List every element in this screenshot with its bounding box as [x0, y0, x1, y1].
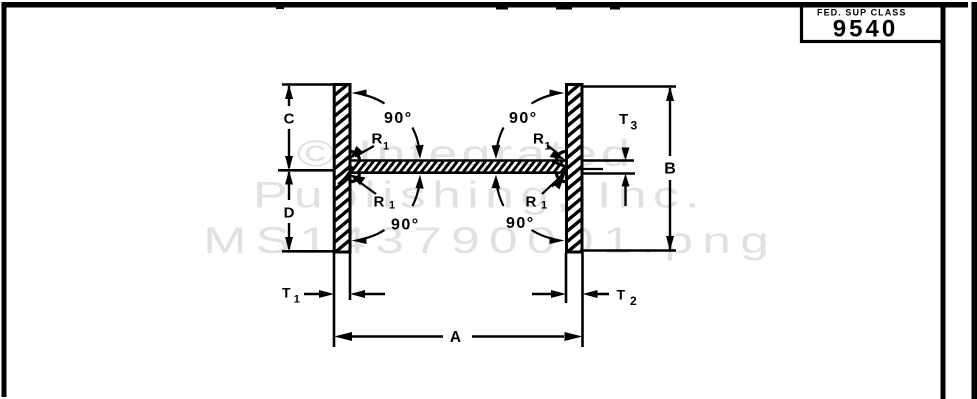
svg-text:R: R — [372, 131, 383, 148]
dim T2 right arrow — [595, 293, 609, 296]
angle arc bottom-right web-end arrow — [492, 175, 501, 189]
dim T1 right extension line — [349, 253, 352, 301]
dim A left arrow — [334, 332, 352, 341]
angle arc top-left flange-end arrow — [352, 90, 367, 97]
web bottom line — [350, 171, 567, 174]
web top line — [350, 159, 567, 162]
dim D top arrow — [285, 170, 293, 184]
angle arc bottom-left web-end arrow — [416, 175, 424, 189]
svg-text:T: T — [617, 287, 626, 303]
dim T1 left extension line (shared with A) — [333, 253, 336, 348]
dim T3 upper leader with down arrow — [624, 148, 626, 151]
dim T3 upper extension line — [583, 159, 634, 161]
angle arc top-right web-end arrow — [492, 145, 501, 159]
web hatch — [348, 158, 579, 176]
angle arc bottom-right flange-end arrow — [550, 237, 565, 244]
svg-text:R: R — [374, 194, 385, 211]
sheet left border — [2, 2, 7, 397]
dim D line — [288, 172, 290, 200]
dim T3 lower extension line — [583, 172, 635, 174]
dim C top extension line — [282, 83, 334, 86]
dim A right arrow — [565, 332, 583, 341]
right flange hatch — [562, 79, 586, 267]
svg-text:90°: 90° — [384, 110, 413, 127]
angle arc top-right flange-end arrow — [550, 90, 565, 97]
svg-text:90°: 90° — [506, 215, 535, 232]
dim B line — [669, 88, 671, 156]
fillet top-right — [557, 152, 566, 161]
svg-text:B: B — [664, 161, 676, 178]
dim T2 left extension line — [565, 253, 568, 304]
dim C line — [288, 86, 290, 106]
dim C top arrow — [285, 85, 293, 100]
fillet bottom-right — [557, 173, 566, 182]
fillet bottom-left — [351, 173, 360, 182]
watermark — [203, 132, 769, 261]
dim D bottom arrow — [285, 237, 293, 251]
FED SUP CLASS title box — [802, 5, 943, 42]
svg-text:1: 1 — [389, 200, 395, 212]
R1 bottom-left leader — [358, 181, 376, 194]
svg-text:R: R — [533, 131, 544, 148]
angle arc top-right — [532, 95, 554, 104]
svg-text:9540: 9540 — [833, 16, 898, 43]
dim T1 left arrow — [304, 293, 322, 296]
angle arc bottom-right — [532, 230, 554, 239]
svg-text:1: 1 — [294, 294, 300, 306]
dim B bottom extension line — [583, 249, 676, 251]
dim C/D shared extension line — [278, 169, 334, 172]
sheet outer right border — [972, 2, 977, 399]
angle arc top-left web-end arrow — [416, 145, 424, 159]
svg-text:90°: 90° — [509, 110, 538, 127]
svg-text:T: T — [619, 111, 628, 128]
left flange hatch — [330, 79, 354, 267]
fillet bottom-left inner curve — [339, 167, 354, 185]
svg-text:Publishing, Inc.: Publishing, Inc. — [253, 174, 700, 216]
dim T3 lower leader with up arrow — [624, 184, 626, 206]
svg-text:2: 2 — [630, 294, 637, 308]
dim B top arrow — [666, 87, 674, 102]
angle arc top-left — [363, 95, 385, 104]
fillet bottom-right outer curve — [552, 169, 568, 187]
left flange — [334, 85, 350, 253]
sheet inner right vertical rule — [941, 4, 946, 399]
dim B bottom arrow — [666, 236, 674, 251]
dim D bottom extension line — [282, 250, 334, 253]
svg-text:R: R — [526, 194, 537, 211]
dim T1 right arrow — [362, 293, 385, 296]
R1 top-left leader — [355, 146, 374, 157]
dim T3 middle short line — [583, 168, 603, 170]
angle arc bottom-left — [363, 230, 385, 239]
right flange — [567, 85, 583, 253]
dim T2 left arrow — [532, 293, 553, 296]
svg-text:90°: 90° — [391, 217, 420, 234]
svg-text:1: 1 — [541, 200, 547, 212]
R1 bottom-right leader — [542, 180, 557, 194]
svg-text:A: A — [450, 329, 461, 346]
svg-text:1: 1 — [383, 141, 389, 153]
fillet top-right dip curve — [553, 162, 568, 169]
svg-text:T: T — [282, 285, 291, 301]
dim T2 right extension line (shared with A) — [581, 253, 584, 348]
sheet top border — [2, 2, 968, 8]
angle arc bottom-left flange-end arrow — [352, 237, 367, 244]
dim C bottom arrow — [285, 156, 293, 170]
R1 top-right leader — [547, 145, 559, 155]
svg-text:D: D — [284, 205, 295, 222]
svg-text:3: 3 — [631, 119, 638, 133]
svg-text:C: C — [284, 111, 295, 128]
dim A line — [352, 335, 443, 338]
dim B top extension line — [583, 85, 676, 87]
scan specks on top border — [496, 8, 508, 10]
fillet top-left — [351, 152, 360, 161]
